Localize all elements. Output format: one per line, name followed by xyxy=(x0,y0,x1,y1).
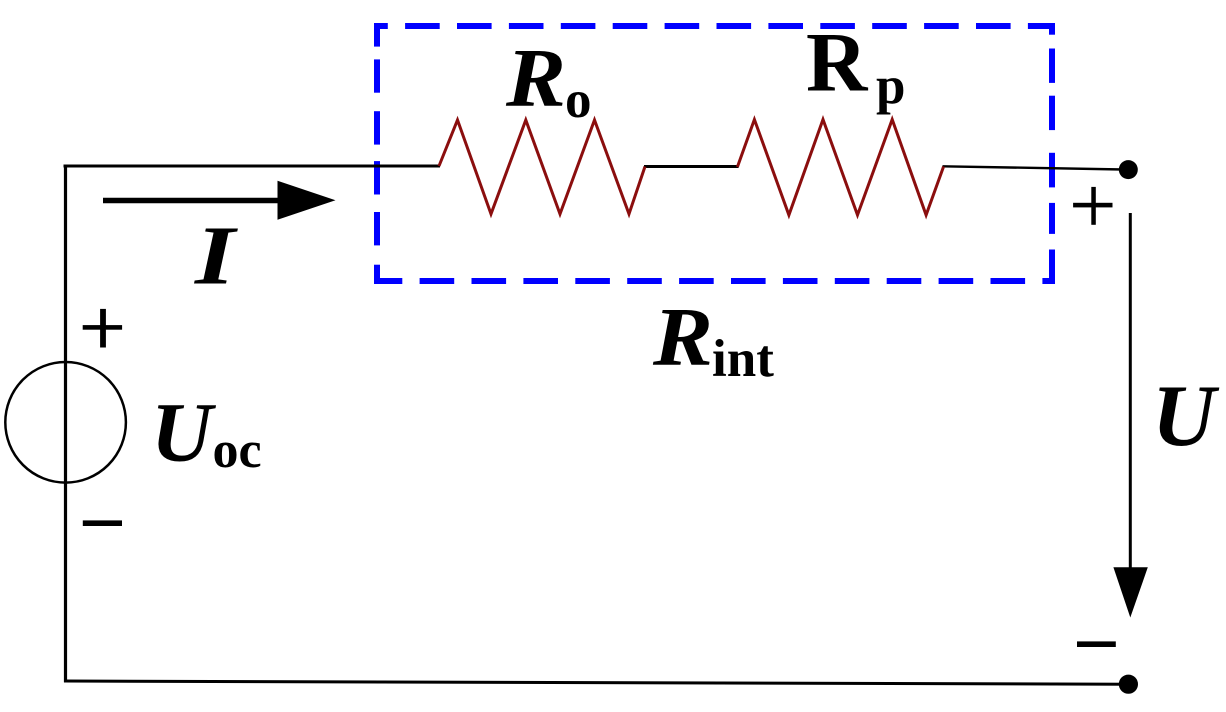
svg-text:p: p xyxy=(876,57,905,115)
svg-text:I: I xyxy=(194,210,239,303)
svg-text:int: int xyxy=(712,330,774,388)
svg-text:oc: oc xyxy=(213,422,262,479)
svg-text:R: R xyxy=(806,16,869,110)
svg-text:U: U xyxy=(1152,368,1220,465)
svg-text:U: U xyxy=(151,386,217,480)
svg-text:R: R xyxy=(652,291,713,384)
svg-text:o: o xyxy=(565,71,592,129)
svg-text:R: R xyxy=(505,32,566,125)
